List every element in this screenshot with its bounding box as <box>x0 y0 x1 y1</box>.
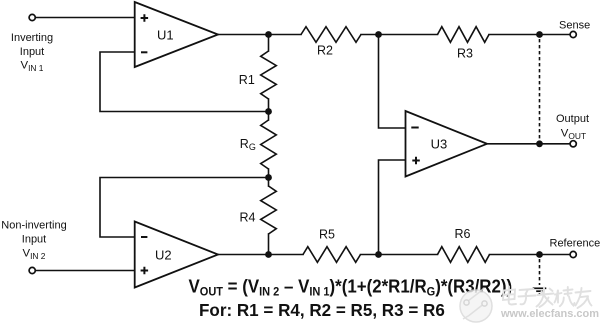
svg-text:R3: R3 <box>457 47 473 61</box>
resistor RG <box>261 120 277 169</box>
node Output <box>536 140 543 147</box>
resistor R6 <box>438 247 490 263</box>
label Inverting Input VIN1 <box>11 32 53 73</box>
formula resistor matching condition <box>199 300 445 320</box>
wire U3 output to Output terminal <box>487 143 570 145</box>
terminal inverting input <box>29 14 35 20</box>
svg-text:R2: R2 <box>317 44 333 58</box>
op-amp U3 <box>406 111 488 177</box>
wire R5 to R6 <box>361 254 438 256</box>
node U1out/R1 <box>265 31 272 38</box>
node R1/RG <box>265 108 272 115</box>
wire R2 to R3 <box>361 34 438 36</box>
wire R3 to Sense terminal <box>489 34 570 36</box>
resistor R5 <box>303 247 361 263</box>
svg-text:For: R1 = R4, R2 = R5, R3 = R6: For: R1 = R4, R2 = R5, R3 = R6 <box>199 300 445 320</box>
svg-text:Input: Input <box>22 234 46 246</box>
resistor R3 <box>438 27 490 43</box>
node R4/U2out <box>265 251 272 258</box>
node RG/R4 <box>265 174 272 181</box>
svg-text:U2: U2 <box>155 248 172 263</box>
svg-text:R1: R1 <box>239 73 255 87</box>
svg-text:R4: R4 <box>240 211 256 225</box>
svg-text:Input: Input <box>20 46 44 58</box>
svg-text:Sense: Sense <box>559 20 590 32</box>
svg-text:U1: U1 <box>157 28 174 43</box>
svg-text:U3: U3 <box>431 137 448 152</box>
terminal Reference <box>570 251 576 257</box>
svg-text:Inverting: Inverting <box>11 32 53 44</box>
wire inverting input to U1 + <box>35 17 135 19</box>
wire U2 - feedback: left, up, right to RG/R4 node <box>100 178 269 238</box>
op-amp U1 <box>135 2 218 67</box>
ground <box>533 288 547 294</box>
label Non-inverting Input VIN2 <box>1 220 66 261</box>
wire non-inverting input to U2 + <box>35 270 135 272</box>
resistor R1 <box>261 51 277 99</box>
terminal Output <box>570 141 576 147</box>
svg-text:www.elecfans.com: www.elecfans.com <box>500 308 599 320</box>
svg-text:R6: R6 <box>455 227 471 241</box>
node Sense <box>536 31 543 38</box>
terminal Sense <box>570 31 576 37</box>
node R2/R3 <box>375 31 382 38</box>
resistor R4 <box>261 186 277 234</box>
wire vertical resistor chain column <box>268 35 270 52</box>
formula VOUT equation <box>189 276 513 299</box>
resistor R2 <box>301 27 361 43</box>
svg-text:R5: R5 <box>319 228 335 242</box>
wire U1 - feedback: left, down, right to R1/RG node <box>100 52 269 112</box>
wire U2 output to R5 <box>218 254 303 256</box>
svg-text:Reference: Reference <box>550 238 600 250</box>
svg-text:Output: Output <box>556 113 589 125</box>
wire node R5R6 up to U3 non-inverting input <box>379 160 406 255</box>
op-amp U2 <box>135 222 218 288</box>
wire dashed Sense to Output <box>539 39 541 140</box>
wire dashed Reference stub <box>539 259 541 285</box>
wire R6 to Reference terminal <box>490 254 571 256</box>
wire node R2R3 down to U3 inverting input <box>379 35 406 129</box>
node Reference <box>536 251 543 258</box>
watermark chinese characters <box>503 287 592 309</box>
wire U1 output to R2 <box>218 34 301 36</box>
svg-text:Non-inverting: Non-inverting <box>1 220 66 232</box>
terminal non-inverting input <box>29 267 35 273</box>
node R5/R6 <box>375 251 382 258</box>
watermark logo circle <box>460 288 492 322</box>
